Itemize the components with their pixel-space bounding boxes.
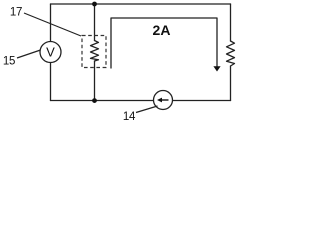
wire bottom left [51, 100, 154, 102]
svg-text:2A: 2A [153, 22, 171, 38]
node junction top [92, 2, 97, 7]
leader line 15 [17, 50, 41, 58]
current source arrow [161, 99, 169, 101]
wire right lower [230, 66, 232, 101]
wire middle branch lower [94, 61, 96, 101]
dashed box around middle resistor [82, 36, 106, 68]
leader line 14 [136, 106, 158, 113]
node junction bottom [92, 98, 97, 103]
wire right upper [230, 4, 232, 41]
resistor right [227, 41, 235, 66]
svg-text:14: 14 [123, 111, 136, 123]
current source circle [154, 91, 173, 110]
current loop 2A path [111, 18, 217, 69]
current loop arrowhead [213, 66, 220, 71]
wire left upper [50, 4, 52, 42]
leader line 17 [24, 13, 81, 36]
wire bottom right [173, 100, 231, 102]
svg-text:17: 17 [10, 7, 22, 19]
svg-text:V: V [46, 45, 55, 60]
svg-text:15: 15 [3, 55, 15, 67]
wire top [51, 3, 231, 5]
wire left lower [50, 63, 52, 101]
wire middle branch upper [94, 4, 96, 41]
resistor middle R17 [91, 41, 99, 62]
voltmeter V1 circle [40, 42, 61, 63]
